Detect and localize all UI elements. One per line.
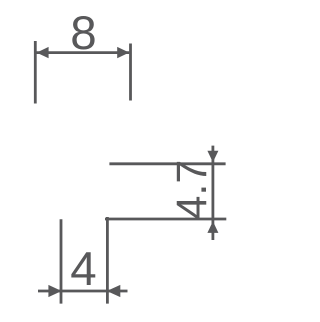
extension line right of dimension 8 (129, 44, 132, 101)
arrowhead down (top of 4.7) (207, 151, 218, 163)
extension line A (top of 4.7) (109, 162, 225, 165)
extension line B (bottom of 4.7) (105, 218, 226, 221)
arrowhead pointing left (right of dimension 4) (107, 285, 121, 297)
dimension line 4 (38, 290, 128, 293)
extension line left of dimension 4 (60, 219, 63, 303)
extension line right of dimension 4 (106, 217, 109, 304)
svg-text:4: 4 (70, 243, 96, 296)
dimension line 4.7 vertical (211, 146, 214, 240)
extension line left of dimension 8 (34, 41, 37, 104)
svg-text:4.7: 4.7 (168, 160, 216, 220)
arrowhead pointing right (left of dimension 4) (48, 285, 61, 297)
svg-text:8: 8 (70, 7, 96, 60)
arrowhead up (bottom of 4.7) (207, 221, 218, 233)
arrowhead left of dimension 8 (37, 47, 49, 58)
dimension line 8 (37, 51, 130, 54)
arrowhead right of dimension 8 (117, 47, 129, 58)
